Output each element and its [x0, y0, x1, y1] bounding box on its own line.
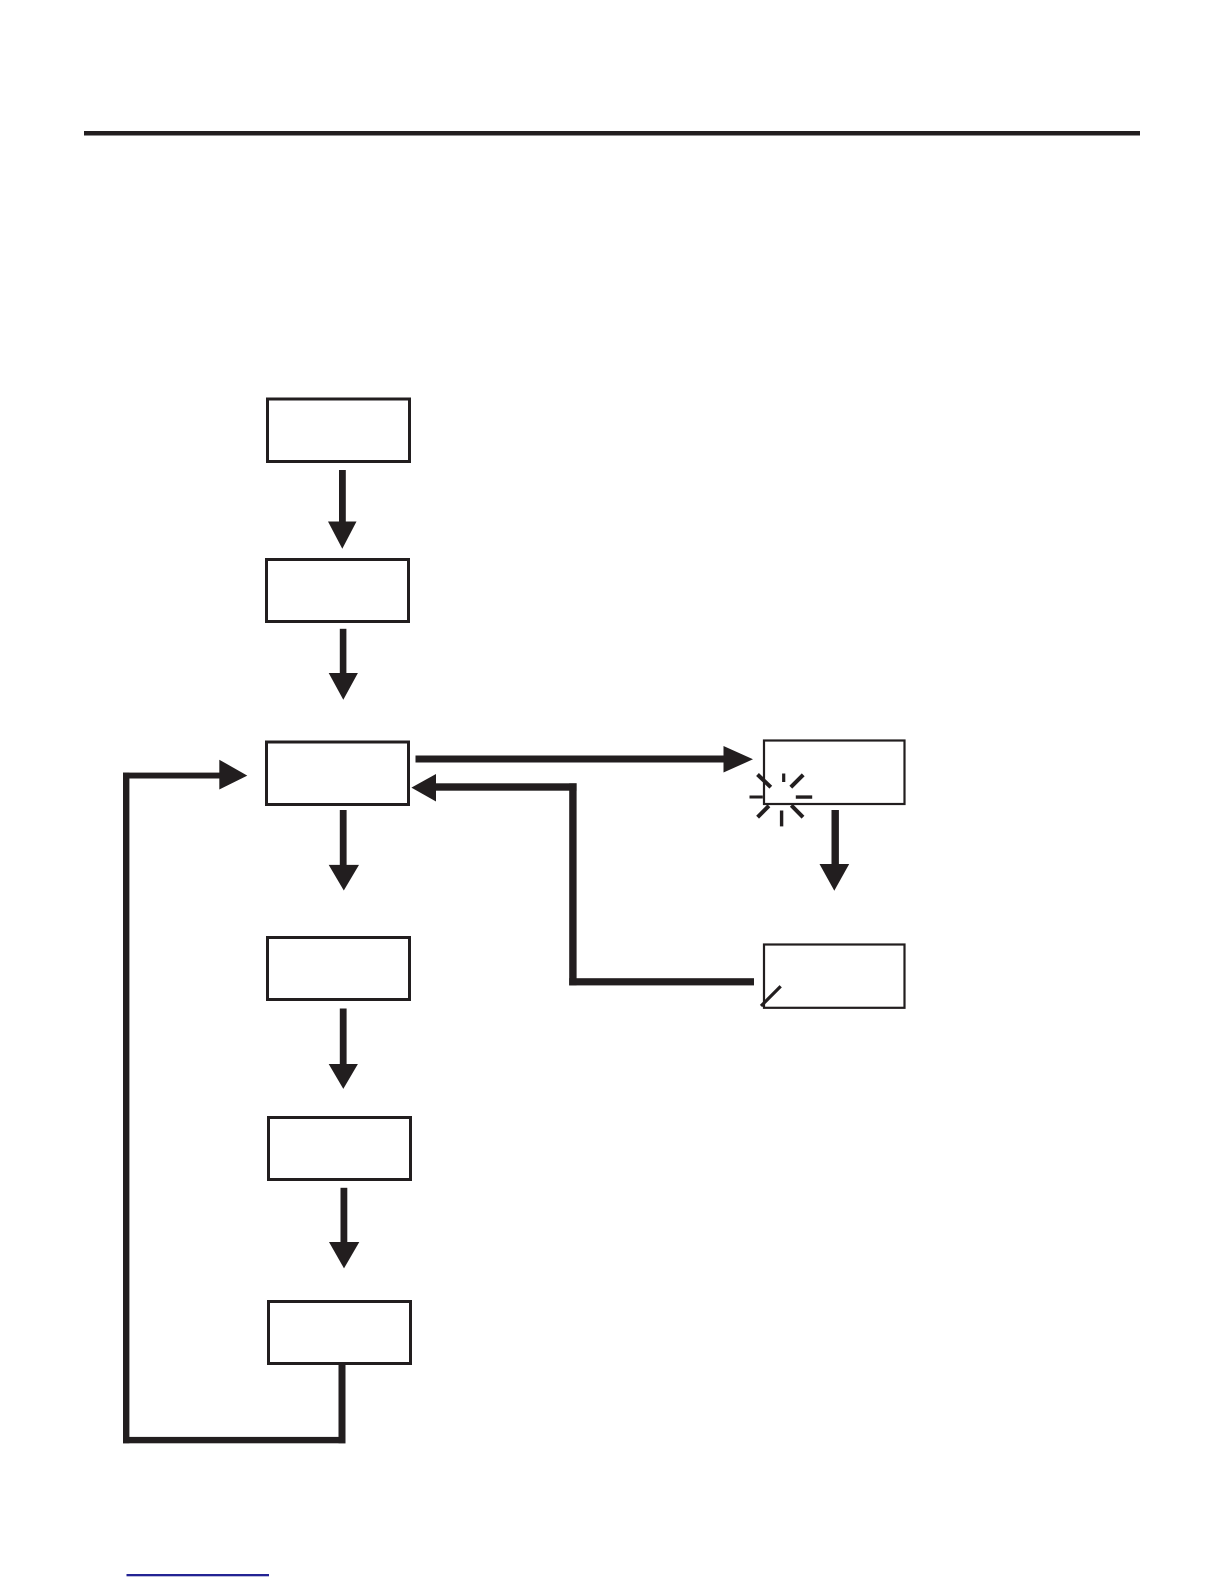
box 7	[269, 1118, 411, 1180]
arrow box3 to box4 (forward, pointing right)	[416, 746, 754, 773]
box 2	[267, 560, 409, 622]
box 3 (loop hub box)	[267, 742, 409, 805]
box 1 (top process box)	[268, 399, 410, 462]
box 5 (right lower box)	[764, 945, 905, 1008]
blue underline at bottom left	[127, 1574, 270, 1576]
arrow box2 to box3	[329, 629, 358, 700]
slash mark on box5 bottom-left corner	[761, 986, 781, 1006]
burst / flash icon at box4 bottom-left corner	[750, 774, 813, 827]
arrow box7 to box8	[329, 1188, 359, 1269]
box 6	[268, 938, 410, 1000]
box 4 (right top box)	[764, 741, 905, 805]
return arrow into box3 (pointing left) with elbow from box5	[411, 774, 754, 985]
top horizontal rule	[84, 131, 1140, 136]
arrow box6 to box7	[329, 1009, 358, 1089]
arrow box3 to box6	[329, 810, 359, 891]
arrow box1 to box2	[328, 470, 357, 549]
box 8 (bottom process box)	[269, 1302, 411, 1364]
feedback loop: box8 bottom, down-left-up, arrow into box3 left side	[123, 760, 346, 1444]
arrow box4 to box5	[820, 810, 850, 891]
